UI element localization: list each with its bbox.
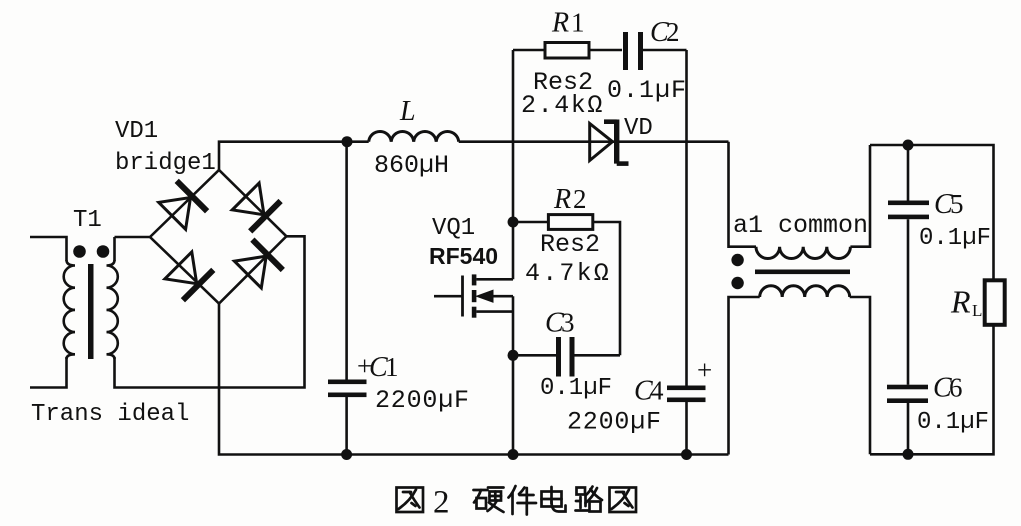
svg-text:1: 1 xyxy=(571,8,585,38)
svg-text:VD1: VD1 xyxy=(115,118,158,145)
caption character: ying (hard) xyxy=(474,488,504,513)
caption character: dian (electric) xyxy=(542,487,566,512)
resistor R2 Res2 4.7k xyxy=(513,184,620,355)
caption character: jian (piece) xyxy=(509,486,537,515)
svg-text:R: R xyxy=(950,284,971,320)
wire bridge bottom vertex to bottom bus xyxy=(219,304,729,455)
capacitor C2 0.1uF xyxy=(607,17,687,105)
svg-text:RF540: RF540 xyxy=(429,243,498,269)
svg-text:0.1µF: 0.1µF xyxy=(917,409,989,436)
caption numeral 2 xyxy=(433,485,450,521)
svg-text:0.1µF: 0.1µF xyxy=(919,225,991,252)
svg-text:VQ1: VQ1 xyxy=(432,215,475,242)
svg-text:5: 5 xyxy=(950,189,964,219)
svg-text:L: L xyxy=(972,301,982,320)
right top rail xyxy=(870,140,994,281)
inductor L 860uH xyxy=(369,96,459,180)
transformer T1 xyxy=(30,207,189,428)
svg-text:1: 1 xyxy=(385,352,399,382)
svg-text:0.1µF: 0.1µF xyxy=(607,76,687,105)
svg-text:L: L xyxy=(399,96,416,127)
svg-text:Res2: Res2 xyxy=(540,230,600,259)
node dot rail/C1 xyxy=(342,136,353,147)
MOSFET VQ1 RF540 xyxy=(429,215,513,318)
svg-text:Trans ideal: Trans ideal xyxy=(31,401,189,428)
zener diode VD xyxy=(459,115,687,164)
svg-text:2: 2 xyxy=(573,184,587,214)
svg-text:T1: T1 xyxy=(73,207,102,234)
wire rail VD to choke xyxy=(687,140,729,143)
caption character: lu (road) xyxy=(576,487,603,512)
load resistor RL xyxy=(870,280,1005,454)
svg-text:6: 6 xyxy=(949,373,963,403)
diode bridge VD1 diamond xyxy=(115,118,286,304)
capacitor C5 0.1uF xyxy=(888,145,991,385)
svg-text:+: + xyxy=(697,355,712,385)
svg-text:R: R xyxy=(553,184,571,215)
node dot C3 tap xyxy=(508,350,519,361)
common-mode choke a1 common xyxy=(729,142,871,455)
bridge diode D1 (left-to-top) xyxy=(159,181,207,229)
svg-text:2200µF: 2200µF xyxy=(375,386,470,415)
resistor R1 loop vertical left xyxy=(512,50,515,279)
capacitor C1 2200uF xyxy=(328,142,470,460)
svg-text:4.7kΩ: 4.7kΩ xyxy=(525,259,611,288)
svg-text:VD: VD xyxy=(624,115,653,142)
wire secondary bottom to bridge right vertex xyxy=(115,236,305,387)
capacitor C6 0.1uF xyxy=(887,373,989,460)
svg-text:860µH: 860µH xyxy=(374,151,449,180)
capacitor C4 2200uF xyxy=(567,50,712,460)
caption character: tu (figure) xyxy=(397,488,424,513)
bridge diode D4 (bottom-to-right) xyxy=(234,240,282,288)
svg-text:a1 common: a1 common xyxy=(733,211,868,240)
resistor R1 Res2 2.4k xyxy=(513,8,622,121)
svg-text:2: 2 xyxy=(666,17,680,47)
svg-text:4: 4 xyxy=(650,376,664,406)
wire bridge top vertex to top rail xyxy=(219,142,369,170)
svg-text:2: 2 xyxy=(433,485,450,521)
capacitor C3 0.1uF xyxy=(513,308,620,403)
caption character: tu (figure) second xyxy=(610,488,637,513)
svg-text:2.4kΩ: 2.4kΩ xyxy=(521,91,604,120)
bridge diode D2 (top-to-right) xyxy=(232,183,280,231)
bridge diode D3 (left-to-bottom) xyxy=(165,252,213,300)
node dot R2 tap xyxy=(508,217,519,228)
svg-text:bridge1: bridge1 xyxy=(115,150,216,177)
svg-text:3: 3 xyxy=(561,308,575,338)
wire secondary top to bridge left vertex xyxy=(115,236,151,239)
svg-text:0.1µF: 0.1µF xyxy=(540,375,612,402)
svg-text:2200µF: 2200µF xyxy=(567,408,662,437)
wire MOSFET source down to bus xyxy=(508,296,519,460)
svg-text:R: R xyxy=(551,8,569,39)
